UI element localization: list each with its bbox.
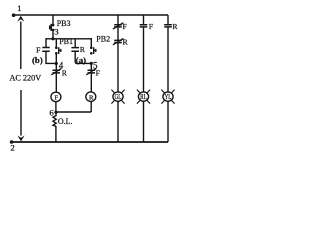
node 1 [12, 13, 16, 17]
overload relay O.L. [53, 112, 56, 127]
svg-text:R: R [62, 69, 68, 78]
contact R (interlock, NC) [55, 64, 57, 71]
contact R (NC) lamp column 1 [114, 40, 122, 42]
node 6 [54, 111, 57, 114]
svg-text:F: F [123, 22, 127, 31]
wire: bottom rail L2 [10, 141, 168, 143]
node 3 [51, 37, 54, 40]
svg-text:(a): (a) [76, 55, 86, 65]
svg-text:F: F [96, 69, 100, 78]
lamp RL [137, 90, 150, 104]
wire: O.L. to bottom rail [55, 127, 57, 143]
lamp column RL: wire from top rail [143, 15, 145, 24]
lamp YL [161, 90, 174, 104]
svg-text:R: R [80, 45, 86, 54]
svg-text:O.L.: O.L. [58, 117, 73, 126]
svg-text:2: 2 [10, 143, 14, 153]
contact R (NO) lamp column 3 [164, 25, 172, 27]
coil R [86, 92, 96, 102]
lamp GL [111, 90, 124, 104]
wire: PB3 to node 3 [52, 31, 54, 39]
svg-text:6: 6 [49, 107, 54, 117]
svg-text:R: R [89, 94, 94, 101]
contact R (holding, NO) [74, 39, 76, 47]
svg-text:R: R [123, 38, 129, 47]
svg-text:(b): (b) [32, 55, 43, 65]
svg-text:RL: RL [140, 94, 147, 101]
wire: F-hold to node 4 [45, 52, 56, 64]
svg-text:YL: YL [165, 94, 172, 101]
contact F (NC) lamp column 1 [114, 25, 122, 27]
pushbutton PB3 (NC) [50, 24, 55, 31]
svg-text:3: 3 [54, 27, 59, 37]
svg-text:R: R [172, 22, 178, 31]
svg-text:F: F [54, 94, 58, 101]
pushbutton PB1 (NO) [55, 39, 57, 47]
AC 220V source arrow (up) [20, 22, 22, 70]
svg-text:1: 1 [17, 3, 21, 13]
contact F (holding, NO) left branch [45, 38, 47, 47]
svg-text:GL: GL [115, 94, 122, 101]
lamp column YL: right edge [167, 15, 169, 24]
svg-text:PB1: PB1 [59, 37, 73, 46]
svg-text:PB2: PB2 [96, 34, 110, 43]
svg-text:AC 220V: AC 220V [10, 73, 42, 82]
wire: PB1 to node 4 [55, 54, 57, 63]
node 4 [55, 62, 58, 65]
wire: parallel split line [46, 38, 91, 40]
node 5 [90, 62, 93, 65]
contact F (NO) lamp column 2 [140, 25, 148, 27]
svg-text:F: F [149, 22, 153, 31]
svg-text:F: F [36, 45, 40, 54]
pushbutton PB2 (NO) [90, 38, 92, 46]
lamp column GL: wire from top rail [117, 15, 119, 24]
wire: R coil to node 6 [56, 102, 91, 112]
coil F [51, 92, 61, 102]
wire: top rail L1 [13, 14, 169, 16]
AC 220V source arrow (down) [20, 90, 22, 136]
wire: PB3 column from top rail [52, 15, 54, 24]
node 2 [10, 140, 14, 144]
contact F (interlock, NC) [90, 63, 92, 70]
svg-text:PB3: PB3 [57, 19, 71, 28]
